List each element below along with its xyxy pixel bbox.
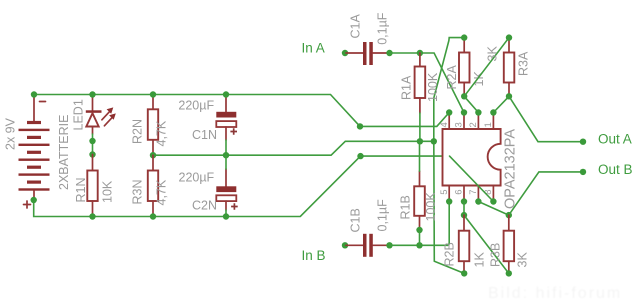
R1B top pin <box>419 171 421 186</box>
node R1A top <box>417 50 423 56</box>
R3A top pin <box>508 38 510 53</box>
node pin 5 <box>446 198 452 204</box>
R3N bottom pin <box>152 201 154 217</box>
resistor R2A 1K <box>445 38 486 97</box>
node R2A bottom inverting input A <box>461 93 467 99</box>
C2N minus plate <box>216 195 236 201</box>
node R1B bottom junction <box>416 242 422 248</box>
svg-text:R3N: R3N <box>131 179 145 204</box>
wire pin 5 to In B line <box>448 202 450 246</box>
C1B right pin <box>373 244 389 246</box>
svg-text:100K: 100K <box>424 192 438 222</box>
R3A bottom pin <box>508 83 510 97</box>
node R2A top VG <box>461 34 467 40</box>
svg-text:1K: 1K <box>473 252 487 268</box>
node R1N bottom rail <box>89 213 95 219</box>
battery plus pin <box>33 191 35 199</box>
R1N top pin <box>92 155 94 171</box>
R2A bottom pin <box>463 83 465 97</box>
R3B body <box>504 231 514 262</box>
node battery minus on rail <box>31 91 37 97</box>
node pin 4 <box>446 109 452 115</box>
svg-text:6: 6 <box>454 190 465 195</box>
R2N body <box>148 109 158 140</box>
wire inverting A to pin 2 <box>464 96 478 112</box>
R1A body <box>415 67 426 99</box>
svg-text:4,7K: 4,7K <box>155 120 169 146</box>
node R2N bottom mid rail <box>150 152 156 158</box>
svg-text:In A: In A <box>302 41 325 56</box>
wire C2N to bottom rail <box>225 210 227 217</box>
svg-text:3K: 3K <box>486 46 500 62</box>
R1B bottom pin <box>419 216 421 230</box>
svg-text:Out A: Out A <box>598 132 632 147</box>
U1 pin 5 stub <box>448 186 450 202</box>
svg-text:2x 9V: 2x 9V <box>4 117 18 150</box>
svg-text:220µF: 220µF <box>179 171 215 185</box>
U1 pin 1 stub <box>492 114 494 130</box>
node Out A terminal <box>580 139 586 145</box>
R3N top pin <box>152 155 154 170</box>
LED1 <box>72 96 116 134</box>
wire VG up to R2A branch <box>434 38 464 142</box>
svg-text:Bild: hifi-forum: Bild: hifi-forum <box>488 285 622 302</box>
U1 pin 6 stub <box>463 186 465 202</box>
node R2N top rail <box>150 91 156 97</box>
wire V- to op-amp pin 4 <box>360 113 449 127</box>
U1 pin 3 stub <box>463 114 465 130</box>
svg-text:2: 2 <box>468 122 479 127</box>
svg-text:C1B: C1B <box>349 208 363 232</box>
node R2B bottom VG <box>461 270 467 276</box>
node pin 7 <box>475 198 481 204</box>
resistor R2B 1K <box>443 215 487 273</box>
node R3A top <box>506 34 512 40</box>
wire pin 7 to output B node <box>478 202 508 216</box>
svg-text:10K: 10K <box>101 180 115 203</box>
battery minus pin <box>33 96 35 121</box>
LED1 triangle <box>86 113 98 126</box>
wire LED1 to R1N <box>92 134 94 155</box>
C2N plus sign <box>231 203 238 210</box>
wire pin 6 down <box>463 202 465 216</box>
node pin 1 <box>490 109 496 115</box>
node R3B top output B <box>506 212 512 218</box>
U1 pin 7 stub <box>477 186 479 202</box>
node C1N top rail <box>223 91 229 97</box>
R2A body <box>459 53 470 83</box>
wire mid rail virtual ground <box>153 141 434 155</box>
capacitor C1A 0,1uF <box>346 12 390 65</box>
LED1 arrow 2 <box>104 118 112 126</box>
node LED1 anode <box>89 138 95 144</box>
U1 pin 4 stub <box>448 114 450 130</box>
wire V+ bottom rail <box>34 156 361 216</box>
wire V+ feed <box>361 155 450 157</box>
LED1 cathode bar <box>86 110 102 113</box>
R2B bottom pin <box>463 261 465 273</box>
op-amp U1 OPA2132PA DIP-8 <box>439 114 519 210</box>
C1N bottom pin <box>225 127 227 140</box>
R3B bottom pin <box>508 261 510 273</box>
node C1A out <box>386 50 392 56</box>
svg-text:4: 4 <box>439 122 450 127</box>
svg-text:1: 1 <box>483 122 494 127</box>
node R3N bottom rail <box>150 213 156 219</box>
svg-text:R1B: R1B <box>399 195 413 219</box>
svg-text:5: 5 <box>439 190 450 195</box>
svg-text:R3A: R3A <box>517 51 531 76</box>
wire V+ diagonal to pin 8 <box>450 156 494 201</box>
LED1 anode pin <box>92 127 94 135</box>
wire R1A to VG <box>419 113 421 141</box>
svg-text:0,1µF: 0,1µF <box>376 12 390 45</box>
wire C1N to mid rail <box>225 140 227 155</box>
C1N top pin <box>225 96 227 112</box>
resistor R3N 4,7K <box>131 155 169 216</box>
battery BAT1 2x9V <box>4 96 72 208</box>
C1B plates <box>363 234 367 257</box>
battery plus sign <box>24 201 31 208</box>
svg-text:R2A: R2A <box>445 65 459 90</box>
node inverting input B <box>461 212 467 218</box>
wire output A <box>509 96 583 141</box>
node C1B out <box>386 242 392 248</box>
battery cell bars <box>27 121 41 124</box>
wire R1B top to VG <box>419 141 421 171</box>
LED1 arrow 1 <box>102 112 110 120</box>
svg-text:100K: 100K <box>426 72 440 102</box>
node V+ corner <box>357 153 363 159</box>
node C1N bottom mid rail <box>223 152 229 158</box>
svg-text:2XBATTERIE: 2XBATTERIE <box>57 115 71 190</box>
wire C1A to R1A node <box>390 52 420 54</box>
wire signal A to pin 3 <box>420 53 464 113</box>
svg-text:LED1: LED1 <box>72 99 86 130</box>
node input B terminal <box>342 242 348 248</box>
node R1A bottom VG <box>417 138 423 144</box>
resistor R1B 100K <box>399 171 439 230</box>
svg-text:C1A: C1A <box>349 14 363 39</box>
svg-text:OPA2132PA: OPA2132PA <box>503 129 519 209</box>
C1A right pin <box>373 52 389 54</box>
LED1 cathode pin <box>92 96 94 111</box>
node VG column <box>431 138 437 144</box>
node C2N bottom rail <box>223 213 229 219</box>
wire pin 1 to output A node <box>493 96 509 112</box>
U1 pin 2 stub <box>477 114 479 130</box>
svg-text:R2B: R2B <box>443 242 457 266</box>
wire feedback B node to R3B bottom <box>464 215 509 273</box>
R1B body <box>414 186 425 216</box>
svg-text:R2N: R2N <box>131 119 145 144</box>
svg-text:3: 3 <box>454 122 465 127</box>
svg-text:In B: In B <box>302 248 326 263</box>
node R3A bottom output A <box>506 93 512 99</box>
R1N bottom pin <box>92 201 94 217</box>
svg-text:0,1µF: 0,1µF <box>376 199 390 232</box>
node R1B pin end <box>416 227 422 233</box>
capacitor C2N 220uF <box>179 169 238 213</box>
U1 pin 8 stub <box>492 186 494 202</box>
resistor R2N 4,7K <box>131 95 169 156</box>
wire V- top rail <box>34 95 360 127</box>
R1A bottom pin <box>419 98 421 113</box>
capacitor C1B 0,1uF <box>346 199 390 257</box>
resistor R1N 10K <box>74 155 115 217</box>
svg-text:Out B: Out B <box>598 162 633 177</box>
node pin 2 <box>475 109 481 115</box>
node pin 3 <box>461 109 467 115</box>
svg-text:R3B: R3B <box>489 243 503 267</box>
node input A terminal <box>342 50 348 56</box>
svg-text:R1A: R1A <box>400 75 414 100</box>
C1B left pin <box>346 244 363 246</box>
node battery plus <box>31 197 37 203</box>
resistor R3B 3K <box>489 215 530 273</box>
wire feedback A node to R3A top <box>464 38 509 97</box>
svg-text:4,7K: 4,7K <box>155 179 169 205</box>
node pin 6 <box>461 198 467 204</box>
U1 package body with notch <box>443 129 501 186</box>
C1A left pin <box>346 52 363 54</box>
R3N body <box>148 171 158 202</box>
R2A top pin <box>463 38 465 53</box>
node R3B bottom <box>506 270 512 276</box>
svg-text:3K: 3K <box>516 252 530 268</box>
C2N top pin <box>225 169 227 186</box>
node pin 8 <box>490 198 496 204</box>
resistor R1A 100K <box>400 53 441 113</box>
wire mid rail to C2N <box>225 155 227 169</box>
resistor R3A 3K <box>486 38 531 97</box>
C1A plates <box>363 42 367 65</box>
wire R1B pin to In B line <box>419 230 421 245</box>
battery minus sign <box>40 101 46 103</box>
R2N top pin <box>152 95 154 110</box>
svg-text:R1N: R1N <box>74 177 88 202</box>
R2B top pin <box>463 215 465 231</box>
wire output B <box>509 172 583 215</box>
svg-text:C2N: C2N <box>192 199 217 213</box>
node R1N top <box>89 151 95 157</box>
R3A body <box>504 53 515 83</box>
node LED1 cathode rail <box>89 91 95 97</box>
R2N bottom pin <box>152 140 154 155</box>
wire VG down to R2B branch <box>434 141 464 273</box>
C1N plus plate <box>216 112 236 118</box>
capacitor C1N 220uF <box>178 96 237 142</box>
svg-text:220µF: 220µF <box>178 99 214 113</box>
R3B top pin <box>508 215 510 231</box>
C1N minus plate <box>216 121 236 127</box>
C2N bottom pin <box>225 201 227 210</box>
node V- rail corner <box>357 123 363 129</box>
node Out B terminal <box>580 169 586 175</box>
R2B body <box>459 231 470 262</box>
wire In B line <box>390 244 448 246</box>
R1N body <box>87 171 97 202</box>
C1N plus sign <box>230 128 237 135</box>
R1A top pin <box>419 53 421 67</box>
C2N plus plate <box>216 186 236 192</box>
svg-text:C1N: C1N <box>192 128 217 142</box>
svg-text:7: 7 <box>468 190 479 195</box>
